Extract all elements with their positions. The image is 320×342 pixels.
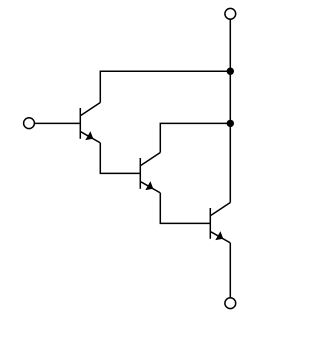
node A (junction dot) xyxy=(227,68,234,75)
terminal T1 (top, collector) xyxy=(225,8,236,19)
terminal T2 (left, base input) xyxy=(24,118,35,129)
wire: Q1 emitter to Q2 base xyxy=(100,143,140,174)
wire: top terminal to node A (vertical rail) xyxy=(229,19,231,71)
wire: input terminal to Q1 base xyxy=(34,122,80,124)
wire: Q2 emitter to Q3 base xyxy=(160,193,210,224)
wire: node B to Q3 collector (vertical rail) xyxy=(229,123,231,202)
transistor Q2 (NPN) xyxy=(140,153,160,193)
wire: node A to Q1 collector xyxy=(100,71,230,102)
transistor Q3 (NPN) xyxy=(210,203,230,243)
transistor Q1 (NPN) xyxy=(80,103,100,143)
wire: node A to node B (vertical rail) xyxy=(229,71,231,123)
node B (junction dot) xyxy=(227,120,234,127)
terminal T3 (bottom, emitter) xyxy=(225,298,236,309)
wire: node B to Q2 collector xyxy=(160,123,230,152)
wire: Q3 emitter to bottom terminal xyxy=(229,243,231,298)
